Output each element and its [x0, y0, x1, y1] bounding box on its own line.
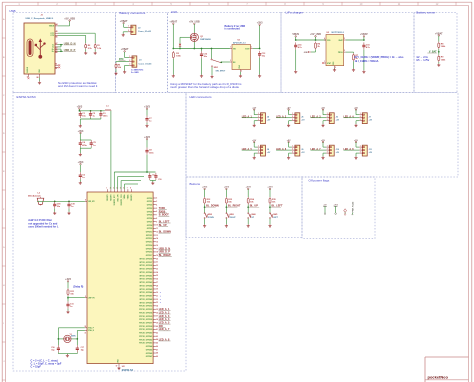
svg-text:GPIO8: GPIO8 — [147, 225, 153, 227]
svg-text:GPIO12: GPIO12 — [146, 238, 153, 240]
capacitor C15 — [362, 42, 370, 49]
svg-text:G: G — [3, 247, 5, 249]
section box: LDO — [168, 13, 282, 93]
svg-text:Battery connectors: Battery connectors — [120, 11, 146, 15]
ground under R3 — [172, 75, 175, 78]
svg-text:Y1: Y1 — [70, 334, 72, 336]
wire +3V3 to R11 — [67, 282, 69, 289]
svg-text:MTCK_GPIO41: MTCK_GPIO41 — [140, 274, 153, 277]
svg-text:B8: B8 — [37, 77, 39, 79]
svg-text:LED_A_8: LED_A_8 — [344, 148, 355, 151]
ground under J1 — [38, 81, 41, 84]
capacitor C11 — [66, 301, 74, 308]
wire R2 to ground — [85, 49, 87, 51]
wire C11 to ground — [67, 309, 69, 311]
wire +5V to J10 — [323, 142, 326, 147]
wire +5V to J9 — [289, 142, 292, 147]
svg-text:1: 1 — [292, 113, 293, 115]
svg-text:3: 3 — [156, 201, 157, 203]
svg-text:VSS: VSS — [333, 62, 335, 65]
net label USB_D_N — [64, 42, 76, 45]
inductor L2 — [28, 193, 44, 206]
note: ESD protection — [58, 81, 97, 88]
pin VBUS of J1 — [49, 23, 58, 28]
wire D+ pair join — [58, 49, 64, 52]
net label LED_A_7 — [159, 328, 171, 331]
wire +3V3 to C7 — [146, 109, 148, 116]
svg-text:VOUT: VOUT — [245, 48, 249, 50]
svg-text:MTCK_GPIO40: MTCK_GPIO40 — [140, 271, 153, 274]
wire decoupling rail 2 — [80, 139, 91, 141]
power flag PWR_FLAG on VBUS — [344, 209, 347, 215]
svg-text:RTCIO_GPIO32: RTCIO_GPIO32 — [139, 306, 152, 308]
no-connect SHIELD — [28, 77, 30, 79]
svg-text:C = 15pF: C = 15pF — [31, 366, 42, 369]
svg-text:LDO: LDO — [171, 10, 178, 14]
wire J11 pin3 to ground — [356, 153, 359, 156]
svg-text:MTCK_GPIO43: MTCK_GPIO43 — [140, 281, 153, 284]
resistor R9 — [438, 55, 446, 62]
svg-text:VDD_SPI: VDD_SPI — [117, 194, 119, 202]
svg-text:BL_UP: BL_UP — [250, 205, 259, 208]
resistor R15 — [269, 197, 277, 205]
svg-text:GPIO44: GPIO44 — [146, 345, 153, 348]
wire +3V3 to C6 — [79, 165, 81, 173]
svg-text:1: 1 — [128, 26, 129, 28]
svg-text:16: 16 — [156, 245, 158, 247]
net label IO8 — [159, 325, 166, 328]
resistor R11 — [67, 288, 69, 296]
svg-text:and 1M doesn't want to need it: and 1M doesn't want to need it — [58, 84, 97, 88]
svg-text:25: 25 — [156, 275, 158, 277]
net label USB_D_N — [159, 247, 171, 250]
svg-text:2: 2 — [292, 148, 293, 150]
wire LED_A_2 to J5 — [276, 117, 292, 119]
wire R12 to SW2 — [204, 205, 206, 213]
svg-text:GPIO0: GPIO0 — [147, 198, 153, 200]
capacitor C1 — [79, 111, 87, 118]
svg-text:VDD3P3_CPU: VDD3P3_CPU — [121, 194, 123, 206]
wire U1 VOUT to +3V3 — [253, 25, 260, 49]
svg-text:ESP32-S2/S3: ESP32-S2/S3 — [17, 95, 36, 99]
capacitor C18 — [53, 201, 61, 208]
svg-text:21: 21 — [156, 262, 158, 264]
svg-text:Battery sense: Battery sense — [416, 10, 435, 14]
svg-text:15: 15 — [156, 242, 158, 244]
power flag PWR_FLAG on +3V3 — [333, 204, 337, 214]
capacitor C9 — [148, 173, 151, 180]
power flag +5V — [354, 140, 358, 143]
wire main VBAT rail — [173, 48, 230, 50]
ground under C15 — [362, 70, 365, 73]
power flag +5V_USB — [64, 17, 75, 21]
ESP32 bottom GND pin — [116, 358, 120, 367]
svg-text:C9: C9 — [152, 174, 154, 176]
wire J4 pin3 to ground — [254, 121, 257, 124]
net label LED_A_8 — [159, 338, 171, 341]
USB trident logo — [35, 38, 46, 58]
wire LED_A_5 to J8 — [242, 149, 258, 151]
resistor R12 — [204, 197, 212, 205]
power flag +3V3 — [257, 22, 263, 26]
note: charge current formula — [355, 56, 404, 63]
net label LED_A_2 — [276, 115, 287, 118]
svg-text:GPIO3: GPIO3 — [147, 208, 153, 210]
svg-text:BL_LEFT: BL_LEFT — [272, 205, 283, 208]
resistor R13 — [225, 197, 233, 205]
svg-text:MTCK_GPIO48: MTCK_GPIO48 — [140, 298, 153, 301]
svg-text:1k I_CHRG = 500mA: 1k I_CHRG = 500mA — [355, 60, 379, 63]
net label USB_D_P — [64, 49, 76, 52]
svg-text:DOWN: DOWN — [208, 217, 215, 219]
wire LED_A_8 to J11 — [344, 149, 360, 151]
svg-text:600mA (bead): 600mA (bead) — [28, 195, 41, 198]
svg-text:MCP73831-2: MCP73831-2 — [332, 32, 345, 34]
net label BL_UP — [250, 205, 259, 208]
net label LED_A_4 — [344, 115, 355, 118]
svg-text:AP2112K-3.3: AP2112K-3.3 — [233, 42, 246, 45]
svg-text:RTCIO_GPIO43: RTCIO_GPIO43 — [139, 342, 152, 345]
svg-text:LED_A_1: LED_A_1 — [242, 115, 253, 118]
wire +5V to J11 — [356, 142, 359, 147]
wire +3V3 to cap rail 1 — [78, 109, 80, 111]
wire SW1 common to U1 EN — [221, 61, 230, 63]
wire stub for label BL_DOWN — [205, 206, 216, 208]
svg-text:LED_A_2: LED_A_2 — [276, 115, 287, 118]
wire stub for label BL_LEFT — [270, 206, 281, 208]
wire C18 to ground — [54, 209, 56, 212]
net label LED_A_3 — [159, 315, 171, 318]
ESP32 VDD_SPI pin — [85, 200, 95, 203]
capacitor C10 — [154, 173, 157, 180]
LED connector J9 — [292, 145, 305, 156]
ground under J11 — [354, 156, 357, 159]
bus arrow labels — [159, 291, 162, 304]
ground under SW4 — [247, 224, 250, 227]
wire +3V3 to R12 — [204, 189, 206, 197]
section box: Off power flags — [302, 177, 375, 239]
wire +5V to J7 — [356, 110, 359, 115]
wire U3 VSS — [334, 67, 336, 70]
svg-text:10: 10 — [156, 225, 158, 227]
svg-text:MTCK_GPIO49: MTCK_GPIO49 — [140, 301, 153, 304]
svg-text:ESP32-S3: ESP32-S3 — [122, 369, 134, 372]
resistor R8 — [438, 42, 446, 49]
svg-text:uses 300mA needed for L: uses 300mA needed for L — [28, 226, 59, 229]
svg-text:GPIO10: GPIO10 — [146, 232, 153, 234]
svg-text:GND: GND — [304, 52, 309, 54]
capacitor C4 — [79, 140, 88, 147]
section box: USB — [13, 13, 116, 93]
svg-text:2: 2 — [292, 116, 293, 118]
svg-text:Conn_01x03: Conn_01x03 — [139, 64, 153, 66]
USB connector J1 — [24, 15, 55, 74]
ground under J6 — [321, 124, 324, 127]
svg-text:LED_A_4: LED_A_4 — [344, 115, 355, 118]
svg-text:C10: C10 — [158, 179, 161, 181]
wire R7 to ground — [353, 61, 355, 68]
svg-text:39: 39 — [156, 322, 158, 324]
resistor R7 — [353, 53, 359, 61]
LED connector J5 — [292, 113, 305, 124]
LED connector J11 — [359, 145, 372, 156]
ground under J2 — [122, 34, 125, 37]
wire +3V3 to R13 — [225, 189, 227, 197]
net label LED_A_6 — [276, 148, 287, 151]
svg-text:VDD3P3: VDD3P3 — [111, 194, 113, 201]
wire D- pair join — [58, 44, 64, 47]
resistor R2 — [85, 43, 93, 50]
note: MOSFET battery path — [170, 82, 242, 89]
svg-text:23: 23 — [156, 268, 158, 270]
wire R5 to ground — [115, 69, 117, 72]
note: divider ratios — [416, 56, 430, 62]
wire SW4 to ground — [247, 219, 249, 225]
wire R1 to ground — [94, 49, 96, 51]
net label BL_RIGHT — [228, 205, 241, 208]
net label LED_A_5 — [242, 148, 253, 151]
svg-text:LEFT: LEFT — [273, 217, 279, 219]
ground under U1 — [239, 75, 242, 78]
svg-text:Buttons: Buttons — [190, 182, 201, 186]
wire +3V3 to R15 — [269, 189, 271, 197]
svg-text:SW5: SW5 — [273, 214, 277, 216]
ESP32 XTAL pins — [84, 326, 94, 334]
power flag +3V3 — [78, 161, 84, 165]
power flag +3V3 — [267, 187, 273, 190]
svg-text:1 ▸ BMS NTC: 1 ▸ BMS NTC — [131, 68, 144, 71]
svg-text:LED connectors: LED connectors — [190, 95, 212, 99]
svg-text:3.5 → 1.75v: 3.5 → 1.75v — [416, 59, 430, 62]
power flag +5V — [252, 107, 256, 110]
ground under C12 — [200, 75, 203, 78]
resistor R5 — [115, 63, 117, 69]
wire divider node — [438, 49, 440, 55]
ESP32 right side pins — [139, 198, 158, 358]
power flag +VBAT — [169, 21, 177, 25]
wire +VBAT down to rail — [172, 24, 174, 48]
svg-text:57: 57 — [116, 366, 118, 368]
power flag +VBAT — [121, 48, 129, 52]
wire U3 VBAT out — [346, 39, 364, 41]
power flag +5V_USB — [189, 21, 200, 25]
svg-text:37: 37 — [156, 316, 158, 318]
svg-text:29: 29 — [156, 289, 158, 291]
switch SW2 — [204, 213, 214, 219]
title block — [425, 357, 469, 382]
svg-text:31: 31 — [84, 332, 86, 334]
capacitor C17 — [76, 345, 79, 352]
wire +VBAT stub — [363, 37, 365, 40]
svg-text:GPIO17: GPIO17 — [146, 255, 153, 257]
power flag +5V — [287, 107, 291, 110]
svg-text:LED_A_7: LED_A_7 — [311, 148, 322, 151]
LED connector J7 — [359, 113, 372, 124]
capacitor C12 — [200, 51, 208, 58]
wire charger input rail — [296, 39, 326, 41]
switch SW3 — [226, 213, 236, 219]
svg-text:GPIO16: GPIO16 — [146, 252, 153, 254]
svg-text:RTCIO_GPIO39: RTCIO_GPIO39 — [139, 329, 152, 331]
wire EN node to ESP32 — [68, 297, 85, 299]
net label B_BOOT — [159, 214, 170, 217]
svg-text:R7 I_CHRG = (VDD/R_PROG) × 1k: R7 I_CHRG = (VDD/R_PROG) × 1k → also — [355, 56, 404, 59]
section box: ESP32-S2/S3 — [13, 93, 186, 372]
wire Q1 drain to rail — [193, 42, 195, 49]
net label BL_DOWN — [159, 231, 172, 234]
ground under C18 — [53, 212, 56, 215]
svg-text:470n: 470n — [82, 144, 87, 147]
svg-text:RTCIO_GPIO36: RTCIO_GPIO36 — [139, 319, 152, 321]
net label LED_A_4 — [159, 318, 171, 321]
svg-text:MTCK_GPIO38: MTCK_GPIO38 — [140, 265, 153, 267]
svg-text:S1: S1 — [55, 63, 57, 65]
svg-text:36: 36 — [156, 312, 158, 314]
svg-text:Conn_01x02: Conn_01x02 — [138, 31, 152, 33]
power flag VBUS — [292, 33, 299, 37]
power flag +3V3 — [224, 187, 230, 190]
svg-text:18: 18 — [156, 252, 158, 254]
net label LED_A_2 — [159, 311, 171, 314]
power flag +5V — [252, 140, 256, 143]
pin SHELL1 of J1 — [55, 63, 58, 65]
wire SW3 to ground — [225, 219, 227, 225]
wire LED_A_7 to J10 — [311, 149, 327, 151]
connector J2 — [128, 25, 152, 34]
net label BL_LEFT — [272, 205, 283, 208]
svg-text:MTCK_GPIO42: MTCK_GPIO42 — [140, 278, 153, 281]
ground under SW2 — [203, 224, 206, 227]
ground under SW5 — [268, 224, 271, 227]
wire C9 C10 to ground — [150, 180, 156, 182]
svg-text:20: 20 — [156, 258, 158, 260]
svg-text:VDD3P3: VDD3P3 — [131, 194, 133, 201]
power flag +5V — [354, 107, 358, 110]
svg-text:RTCIO_GPIO33: RTCIO_GPIO33 — [139, 309, 152, 311]
inductor L1 — [105, 106, 111, 111]
wire LED_A_6 to J9 — [276, 149, 292, 151]
section box: Battery connectors — [116, 13, 168, 93]
svg-text:3: 3 — [292, 119, 293, 121]
LED connector J8 — [258, 145, 271, 156]
section box: LED connectors — [186, 93, 458, 178]
wire J9 pin3 to ground — [289, 153, 292, 156]
wire stub for label BL_UP — [248, 206, 259, 208]
net label BL_DOWN — [206, 205, 219, 208]
pin SHELL2 of J1 — [55, 67, 58, 70]
wire J8 pin3 to ground — [254, 153, 257, 156]
wire J10 pin3 to ground — [323, 153, 326, 156]
svg-text:22: 22 — [156, 265, 158, 267]
no-connect SHELL2 — [58, 67, 60, 69]
ground under J8 — [253, 156, 256, 159]
svg-text:2: 2 — [128, 30, 129, 32]
wire +VBAT to J2 — [124, 23, 128, 27]
capacitor C5 — [90, 140, 97, 147]
wire J6 pin3 to ground — [323, 121, 326, 124]
wire rail to C12 — [201, 49, 203, 52]
svg-text:31: 31 — [156, 295, 158, 297]
ESP32 EN pin — [85, 296, 96, 299]
wire right cluster rail — [114, 171, 155, 173]
pins D- of J1 — [52, 42, 57, 50]
switch SW1 — [211, 49, 226, 73]
capacitor C6 — [79, 172, 86, 179]
svg-text:VDD3P3: VDD3P3 — [107, 194, 109, 201]
svg-text:RTCIO_GPIO40: RTCIO_GPIO40 — [139, 332, 152, 335]
svg-text:MTCK_GPIO46: MTCK_GPIO46 — [140, 291, 153, 294]
resistor R1 — [94, 43, 102, 50]
switch SW5 — [269, 213, 278, 219]
svg-text:RIGHT: RIGHT — [230, 217, 237, 219]
wire C12 to ground — [201, 58, 203, 74]
wire U3 PROG to R7 — [346, 52, 354, 53]
wire stub for label BL_RIGHT — [226, 206, 237, 208]
svg-text:MTCK_GPIO47: MTCK_GPIO47 — [140, 295, 153, 298]
ground under J7 — [354, 124, 357, 127]
diode D1 — [179, 44, 181, 46]
wire J1 GND — [39, 78, 41, 82]
capacitor C2 — [89, 111, 96, 118]
ground under C9 C10 — [151, 182, 154, 185]
ground under R5 — [114, 72, 117, 75]
svg-text:BL_RIGHT: BL_RIGHT — [228, 205, 241, 208]
svg-text:MTCK_GPIO44: MTCK_GPIO44 — [140, 284, 153, 287]
ground under C7 — [145, 124, 148, 127]
switch SW4 — [248, 213, 257, 219]
svg-text:RTCIO_GPIO37: RTCIO_GPIO37 — [139, 322, 152, 324]
ground under C14 — [294, 70, 297, 73]
no-connect SHELL1 — [58, 64, 60, 66]
svg-text:100n: 100n — [149, 152, 154, 154]
svg-text:GPIO45: GPIO45 — [146, 348, 153, 351]
svg-text:(Delay R): (Delay R) — [73, 286, 83, 288]
note: load capacitance formula — [31, 360, 62, 369]
capacitor C19 — [67, 201, 75, 208]
wire +VBAT to R8 — [438, 36, 440, 42]
wire SW2 to ground — [204, 219, 206, 225]
svg-text:B7: B7 — [56, 48, 58, 50]
svg-text:GPIO11: GPIO11 — [146, 235, 152, 237]
wire D1 to rail — [179, 46, 181, 48]
transistor Q1 — [190, 33, 212, 41]
wire +5V to J5 — [289, 110, 292, 115]
wire R3 to ground — [172, 59, 174, 75]
ground under C6 — [79, 182, 82, 185]
wire XTAL_P to crystal — [58, 328, 85, 345]
note: BMS NTC — [131, 68, 144, 74]
power flag +3V3 — [202, 187, 208, 190]
svg-text:RTCIO_GPIO35: RTCIO_GPIO35 — [139, 316, 152, 318]
svg-text:SW_SPDT: SW_SPDT — [216, 71, 226, 73]
wire XTAL_N to crystal — [76, 331, 84, 346]
capacitor C3 — [99, 111, 108, 118]
svg-text:GPIO9: GPIO9 — [147, 228, 153, 230]
wire C8 down — [146, 155, 148, 172]
wire SW5 to ground — [269, 219, 271, 225]
svg-text:LiPo charger: LiPo charger — [286, 11, 304, 15]
ground under J4 — [253, 124, 256, 127]
wire C7 to ground — [146, 123, 148, 125]
svg-text:LED_A_5: LED_A_5 — [242, 148, 253, 151]
ground bar GND — [304, 51, 311, 54]
svg-text:2: 2 — [156, 198, 157, 200]
net label RXD0 — [159, 210, 167, 213]
svg-text:USB: USB — [9, 9, 15, 13]
svg-text:1: 1 — [292, 145, 293, 147]
svg-text:19: 19 — [156, 255, 158, 257]
svg-text:5: 5 — [156, 208, 157, 210]
